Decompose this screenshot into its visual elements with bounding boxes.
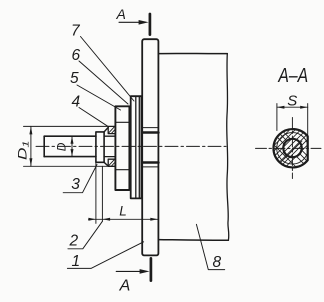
svg-text:5: 5 bbox=[70, 70, 79, 87]
svg-text:6: 6 bbox=[72, 47, 81, 64]
svg-text:S: S bbox=[287, 93, 297, 110]
leader 6 bbox=[79, 61, 128, 104]
nut part 5 bbox=[115, 106, 129, 190]
svg-text:4: 4 bbox=[72, 94, 81, 111]
dimension D1 extension lines bbox=[24, 125, 108, 127]
shaft segment through bushing bbox=[104, 135, 115, 137]
shaft bbox=[44, 135, 96, 137]
svg-text:L: L bbox=[119, 203, 127, 218]
center line main view bbox=[36, 145, 226, 147]
svg-text:A: A bbox=[116, 6, 126, 22]
svg-text:2: 2 bbox=[69, 232, 79, 249]
chamfer top bbox=[104, 127, 108, 131]
L dimension vertical extension lines bbox=[95, 163, 97, 224]
lock washer ring top (part 4, sectioned) bbox=[108, 126, 115, 133]
bushing thread lines through panel bbox=[142, 127, 158, 129]
svg-text:D1: D1 bbox=[17, 140, 30, 160]
leader 2 bbox=[68, 221, 103, 249]
leader 3 bbox=[63, 165, 97, 193]
center lines bbox=[291, 118, 293, 179]
washers parts 6,7 bbox=[131, 96, 142, 198]
svg-text:1: 1 bbox=[72, 253, 81, 270]
svg-text:A: A bbox=[119, 278, 131, 295]
collar part 3 bbox=[96, 132, 104, 162]
L dimension line bbox=[89, 218, 158, 220]
inner shaft circle bbox=[283, 139, 301, 157]
svg-text:8: 8 bbox=[213, 254, 222, 271]
lock washer ring bottom bbox=[108, 159, 115, 166]
hatch annulus "\" bbox=[262, 127, 321, 182]
S dimension line bbox=[277, 106, 308, 108]
section marker top bbox=[149, 14, 152, 35]
leader 4 bbox=[79, 108, 108, 127]
dimension D line bbox=[71, 136, 73, 156]
panel part 1 bbox=[142, 39, 158, 255]
leader 1 bbox=[67, 242, 143, 269]
hatch whole disc "/" bbox=[262, 102, 324, 179]
chamfer bottom bbox=[104, 162, 108, 166]
S extension lines bbox=[276, 104, 278, 131]
svg-text:7: 7 bbox=[71, 22, 81, 39]
leader 5 bbox=[77, 85, 121, 110]
svg-text:D: D bbox=[54, 142, 68, 151]
leader 7 bbox=[81, 37, 135, 102]
svg-text:A–A: A–A bbox=[278, 65, 309, 87]
section marker bottom bbox=[150, 258, 153, 280]
svg-text:3: 3 bbox=[71, 176, 80, 193]
part number labels 1-8 bbox=[69, 22, 222, 271]
dimension D1 line with arrowheads bbox=[30, 126, 32, 166]
body part 8 bbox=[158, 52, 227, 54]
outer circle with flat bbox=[273, 129, 307, 167]
thread thin circle bbox=[277, 133, 308, 164]
leader 8 bbox=[196, 224, 224, 269]
